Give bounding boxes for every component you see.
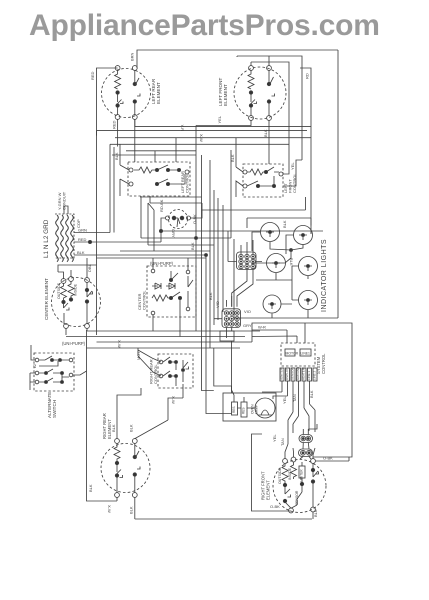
right rear element terminal 1 bbox=[115, 439, 120, 444]
wire harness h y155 bbox=[112, 154, 196, 156]
svg-text:YEL: YEL bbox=[217, 115, 222, 123]
center control dot 2 bbox=[178, 296, 181, 299]
connector block 12pin outline bbox=[237, 252, 257, 270]
right front element limiter block bbox=[299, 466, 305, 478]
wire cord top lead bbox=[64, 206, 68, 214]
right rear control switch 1 bbox=[163, 357, 176, 386]
center control box bbox=[147, 266, 196, 317]
label right front element bbox=[261, 471, 271, 500]
wire bus y135 bbox=[97, 130, 308, 132]
left rear element limit switch bbox=[118, 94, 123, 115]
wire left front elem bottom BLK bbox=[268, 120, 270, 164]
power cord conductor L1 bbox=[56, 215, 59, 262]
wire mid bus v4 bbox=[210, 160, 232, 393]
indicator lamp 6 dot bbox=[307, 299, 310, 302]
wire as left leads bbox=[30, 345, 35, 390]
wire main bus x86 BLK bbox=[87, 330, 118, 501]
svg-text:SENSOR: SENSOR bbox=[291, 366, 295, 380]
center element resistor inside bbox=[68, 281, 74, 298]
center element dot 4 bbox=[85, 300, 88, 303]
svg-text:YEL: YEL bbox=[272, 434, 277, 442]
wire mid bus v1 bbox=[195, 126, 197, 332]
left front element terminal 2 bbox=[267, 66, 272, 71]
label right rear control bbox=[149, 359, 159, 384]
indicator lamp 4 filament bbox=[304, 266, 312, 271]
indicator lamp 4 dot bbox=[307, 265, 310, 268]
wire left front elem bottom left YEL bbox=[196, 120, 251, 125]
indicator lamp 4 bbox=[299, 257, 318, 276]
SEC3 bbox=[44, 126, 306, 414]
right front element switch right bbox=[313, 463, 319, 507]
right rear element terminal 4 bbox=[132, 493, 137, 498]
svg-text:BLK: BLK bbox=[208, 292, 213, 300]
label center control bbox=[137, 290, 147, 310]
svg-text:INSIDE: INSIDE bbox=[74, 283, 78, 296]
svg-text:GRY: GRY bbox=[171, 229, 176, 238]
left front element terminal 1 bbox=[249, 66, 254, 71]
alternate switch terminal 5 bbox=[69, 373, 73, 377]
svg-text:X-W: X-W bbox=[171, 396, 176, 404]
center control dot 1 bbox=[169, 296, 172, 299]
alternate switch terminal 4 bbox=[69, 358, 73, 362]
right rear control terminal 2 bbox=[159, 374, 163, 378]
svg-text:LINE1: LINE1 bbox=[301, 352, 311, 356]
junction dot lamp bus bbox=[290, 249, 293, 252]
svg-text:GROUND: GROUND bbox=[296, 366, 300, 380]
right front element terminal 3 bbox=[311, 459, 316, 464]
left rear element terminal 1 bbox=[115, 66, 120, 71]
wire drop 155 bbox=[154, 151, 156, 162]
svg-text:BLK: BLK bbox=[77, 250, 85, 255]
svg-text:LINE 2: LINE 2 bbox=[313, 370, 317, 380]
connector oval 1 pin b bbox=[306, 436, 311, 441]
center control terminal t4 bbox=[186, 307, 190, 311]
wire lr control left leads bbox=[120, 144, 129, 196]
left front element node dot c bbox=[267, 82, 270, 85]
label left front control bbox=[283, 173, 297, 193]
oven sensor terminal L bbox=[166, 216, 170, 220]
right rear element dot 1 bbox=[115, 461, 118, 464]
svg-text:INDICATOR LIGHTS: INDICATOR LIGHTS bbox=[321, 239, 328, 312]
alternate switch terminal 1 bbox=[35, 358, 39, 362]
wire oval links bbox=[300, 424, 317, 459]
left front element terminal 4 bbox=[267, 116, 272, 121]
wire harness h y238 bbox=[141, 237, 231, 239]
left rear element switch 2 bbox=[135, 78, 140, 115]
right rear control dot 5 bbox=[182, 369, 185, 372]
svg-text:BLK: BLK bbox=[129, 506, 134, 514]
left rear element resistor bbox=[115, 70, 121, 89]
wire lamp feeds bbox=[252, 232, 299, 304]
wire sc top feeds bbox=[252, 323, 305, 343]
right front element dot 2 bbox=[300, 482, 303, 485]
SEC6 bbox=[223, 323, 352, 519]
right rear element dot 4 bbox=[133, 473, 136, 476]
left front element riser 2 bbox=[237, 56, 269, 66]
indicator lamp 1 bbox=[261, 223, 280, 242]
svg-text:BLK: BLK bbox=[88, 484, 93, 492]
indicator lamp 3 filament bbox=[272, 263, 280, 268]
svg-text:SENSOR: SENSOR bbox=[295, 490, 299, 505]
wire lf control out YEL bbox=[283, 160, 302, 186]
left rear control box bbox=[128, 162, 190, 196]
alternate switch dot 5 bbox=[45, 381, 48, 384]
oven lamp resistor block 1 bbox=[232, 402, 238, 415]
wire rr bottom right to bus bbox=[135, 497, 312, 519]
indicator lamp 6 filament bbox=[304, 300, 312, 305]
surface unit right rear element outline bbox=[101, 444, 150, 493]
left rear element node dot b bbox=[116, 104, 119, 107]
left front control box bbox=[243, 164, 283, 197]
label oven lamp bbox=[251, 404, 259, 414]
wire ce bottom leads bbox=[66, 328, 87, 335]
wire sensor bottom bbox=[161, 230, 323, 232]
left rear element terminal 2 bbox=[132, 66, 137, 71]
alternate switch dot 1 bbox=[51, 359, 54, 362]
oven sensor bead 1 bbox=[172, 216, 176, 220]
system control pin 6 bbox=[308, 368, 312, 381]
left front control switch bbox=[247, 167, 279, 186]
alternate switch terminal 2 bbox=[35, 371, 39, 375]
center element dot 2 bbox=[69, 298, 72, 301]
surface unit right front element outline bbox=[273, 460, 326, 513]
wire cord GRN out bbox=[74, 232, 110, 234]
label system control bbox=[316, 353, 326, 374]
wire vertical v148 bbox=[147, 203, 149, 245]
indicator lamp 2 dot bbox=[302, 234, 305, 237]
oven lamp filament bbox=[258, 410, 272, 415]
wire bus y150 bbox=[126, 150, 196, 152]
alternate switch terminal 3 bbox=[35, 380, 39, 384]
center element switch b bbox=[87, 282, 93, 323]
right rear control dot 4 bbox=[175, 375, 178, 378]
right front element resistor 2 bbox=[291, 462, 297, 479]
right rear element limit switch bbox=[117, 465, 123, 493]
wire vertical v141 bbox=[140, 196, 142, 238]
right rear element switch 2 bbox=[135, 451, 140, 493]
wire lamp feeds 2 bbox=[270, 218, 311, 318]
center element terminal 5 bbox=[85, 324, 90, 329]
left front control dot 3 bbox=[272, 184, 275, 187]
svg-text:YEL: YEL bbox=[282, 396, 287, 404]
system control inner relay 2 bbox=[300, 349, 311, 356]
indicator lamp 5 filament bbox=[268, 304, 276, 309]
wire rf bottom drop bbox=[312, 512, 314, 519]
right rear control dot 2 bbox=[175, 361, 178, 364]
svg-text:IGNITER: IGNITER bbox=[280, 367, 284, 380]
oven sensor terminal R bbox=[187, 216, 191, 220]
svg-text:RD-BK: RD-BK bbox=[159, 199, 164, 212]
left rear element sense lead bbox=[134, 70, 136, 82]
left rear control dot 3 bbox=[155, 182, 158, 185]
connector block 8pin outline bbox=[222, 309, 241, 328]
wire cc leads bbox=[153, 258, 188, 337]
center control terminal t2 bbox=[186, 270, 190, 274]
relay box under connector bbox=[220, 331, 234, 341]
wire main bus x110 bbox=[109, 144, 111, 232]
terminal block outline bbox=[55, 214, 74, 258]
label left rear element bbox=[151, 78, 161, 104]
connector 12pin pins bbox=[239, 254, 255, 268]
right rear control box bbox=[158, 354, 193, 388]
right front element dot 3 bbox=[311, 468, 314, 471]
wire sensor left bbox=[161, 218, 166, 242]
indicator lamp 2 bbox=[294, 226, 313, 245]
svg-text:O-BK: O-BK bbox=[323, 456, 333, 461]
svg-text:OUTSIDE: OUTSIDE bbox=[57, 282, 61, 299]
surface unit center element outline bbox=[52, 278, 101, 327]
wire harness h y197 bbox=[140, 196, 202, 198]
svg-text:(UNI-PURP): (UNI-PURP) bbox=[62, 341, 86, 346]
left front element node dot b bbox=[249, 104, 252, 107]
wire rf left L bbox=[252, 434, 292, 511]
system control pin 1 bbox=[280, 368, 284, 381]
svg-text:BLK: BLK bbox=[129, 424, 134, 432]
left front control terminal 3 bbox=[279, 172, 283, 176]
wire mid bus v5 bbox=[213, 190, 215, 325]
connector oval 1 pin a bbox=[301, 436, 306, 441]
system control pin 7 bbox=[313, 368, 317, 381]
right rear control dot 3 bbox=[169, 375, 172, 378]
center control terminal t1 bbox=[151, 269, 155, 273]
svg-text:L1 N L2 GRD: L1 N L2 GRD bbox=[43, 219, 50, 258]
right front element resistor 1 bbox=[282, 463, 288, 483]
label right rear element bbox=[102, 413, 112, 439]
wire harness h y245 bbox=[148, 244, 214, 246]
right front element switch lower bbox=[285, 487, 291, 509]
center element dot 3 bbox=[85, 288, 88, 291]
svg-text:X-W: X-W bbox=[199, 134, 204, 142]
left rear element node dot d bbox=[133, 100, 136, 103]
indicator lamp 5 dot bbox=[271, 303, 274, 306]
system control pin 5 bbox=[302, 368, 306, 381]
wire rr bottom left bbox=[116, 497, 118, 501]
indicator lamp 5 bbox=[263, 295, 281, 313]
wire 12pin stubs bbox=[228, 231, 262, 262]
svg-text:INSIDE: INSIDE bbox=[288, 467, 292, 480]
svg-text:LIMITER: LIMITER bbox=[299, 469, 303, 482]
oven sensor probe bbox=[174, 218, 180, 227]
alternate switch dot 4 bbox=[61, 372, 64, 375]
svg-text:DSPLAY: DSPLAY bbox=[285, 368, 289, 380]
svg-text:COP: COP bbox=[76, 219, 81, 228]
right rear element terminal 3 bbox=[115, 493, 120, 498]
center element dot 1 bbox=[62, 300, 65, 303]
connector oval 2 bbox=[299, 449, 313, 457]
wire top border L1 run bbox=[137, 50, 338, 68]
wire 12pin to 8pin link bbox=[232, 269, 253, 307]
center element resistor outside bbox=[61, 283, 67, 300]
svg-text:VIO: VIO bbox=[215, 301, 220, 308]
system control box bbox=[281, 343, 315, 366]
center control diode 1 bbox=[152, 283, 161, 289]
wire rrc feeds bbox=[135, 348, 183, 439]
junction dot cord red bbox=[88, 240, 91, 243]
left rear control terminal 3 bbox=[185, 170, 189, 174]
alternate switch jumper bbox=[39, 361, 58, 366]
right rear control terminal 1 bbox=[159, 360, 163, 364]
right rear control inner contact bbox=[183, 360, 189, 382]
wire harness h y331 bbox=[87, 330, 260, 332]
left rear element node dot a bbox=[116, 91, 119, 94]
right front element terminal 1 bbox=[283, 459, 288, 464]
wire main bus x96 bbox=[96, 131, 98, 335]
SEC2 bbox=[114, 138, 323, 242]
left rear control dot 4 bbox=[166, 182, 169, 185]
left rear control terminal 2 bbox=[129, 182, 133, 186]
wire right border BLK bbox=[337, 50, 339, 318]
svg-text:BLK: BLK bbox=[114, 152, 119, 160]
label left rear control bbox=[180, 171, 190, 193]
svg-text:RES: RES bbox=[241, 407, 245, 414]
system control pin 3 bbox=[291, 368, 295, 381]
left front element resistor bbox=[248, 70, 254, 89]
system control pin 2 bbox=[286, 368, 290, 381]
wire LF top feed 1 bbox=[237, 56, 302, 160]
right rear element dot 2 bbox=[115, 474, 118, 477]
SEC5 bbox=[30, 345, 312, 519]
wire vertical v154 bbox=[148, 203, 154, 251]
left front control dot 1 bbox=[264, 170, 267, 173]
svg-text:MGT: MGT bbox=[136, 351, 141, 360]
wire LF top feed 2 bbox=[251, 62, 289, 164]
svg-text:LINE 1: LINE 1 bbox=[307, 370, 311, 380]
left rear element terminal 4 bbox=[132, 115, 137, 120]
wire limiter leads bbox=[291, 462, 302, 508]
svg-text:Y-R: Y-R bbox=[180, 125, 185, 132]
wire harness h y336 bbox=[66, 336, 245, 338]
left front control terminal 1 bbox=[243, 170, 247, 174]
indicator lamp 1 dot bbox=[269, 231, 272, 234]
wire harness h y251 bbox=[120, 250, 210, 252]
wire 8pin drop bbox=[232, 341, 235, 397]
indicator lights enclosure bbox=[234, 218, 338, 318]
surface unit left front element outline bbox=[234, 67, 286, 119]
wire mid bus v2 bbox=[202, 155, 214, 391]
system control enclosure bbox=[252, 323, 352, 457]
svg-text:TAN: TAN bbox=[280, 438, 285, 446]
power cord conductor N bbox=[61, 215, 64, 262]
left rear element terminal 3 bbox=[115, 115, 120, 120]
alternate switch dot 2 bbox=[59, 359, 62, 362]
wire sensor right bbox=[150, 196, 202, 218]
wire rr risers bbox=[117, 388, 141, 439]
wire harness h y210 bbox=[202, 197, 306, 210]
oven lamp resistor block 2 bbox=[241, 402, 247, 417]
svg-text:X-W: X-W bbox=[117, 340, 122, 348]
left front control terminal 2 bbox=[243, 184, 247, 188]
connector 8pin pins bbox=[224, 311, 239, 326]
wire harness h y258 bbox=[97, 257, 207, 259]
surface unit left rear element outline bbox=[102, 69, 151, 118]
svg-text:VIO: VIO bbox=[244, 309, 251, 314]
oven sensor circle bbox=[169, 210, 188, 229]
label left front element bbox=[218, 78, 228, 106]
wire cord RED out bbox=[74, 241, 161, 243]
left front element node dot d bbox=[267, 100, 270, 103]
connector oval 1 bbox=[299, 435, 313, 443]
wire LF riser RD bbox=[300, 68, 311, 234]
wire bus v114 bbox=[113, 147, 115, 233]
svg-text:YEL: YEL bbox=[290, 162, 295, 170]
center control switch 1 bbox=[171, 271, 180, 317]
wire bus y146 bbox=[110, 143, 289, 145]
wire lamp2 drop bbox=[267, 245, 304, 264]
center element terminal 4 bbox=[64, 324, 69, 329]
oven sensor bead 2 bbox=[180, 216, 184, 220]
center element terminal 1 bbox=[61, 279, 66, 284]
indicator lamp 1 filament bbox=[266, 232, 274, 237]
svg-text:DBL: DBL bbox=[87, 263, 92, 272]
svg-text:CONTROL: CONTROL bbox=[292, 173, 297, 193]
svg-text:BLK: BLK bbox=[309, 390, 314, 398]
right front element terminal 2 bbox=[291, 457, 296, 462]
left rear control dot 2 bbox=[166, 168, 169, 171]
left front element terminal 3 bbox=[249, 116, 254, 121]
wire ce top leads bbox=[58, 258, 97, 279]
right rear control dot 1 bbox=[169, 361, 172, 364]
svg-text:GRY: GRY bbox=[243, 323, 252, 328]
right rear element sense lead bbox=[134, 443, 136, 455]
wire mid bus v7 bbox=[222, 205, 224, 312]
label alternate switch bbox=[47, 392, 57, 418]
left front control resistor bbox=[247, 169, 266, 175]
left front element node dot a bbox=[249, 91, 252, 94]
right rear element terminal 2 bbox=[132, 439, 137, 444]
svg-text:BLK: BLK bbox=[282, 220, 287, 228]
svg-text:W-R: W-R bbox=[258, 325, 266, 330]
left front element riser 1 bbox=[250, 62, 252, 66]
svg-text:HEATER: HEATER bbox=[302, 367, 306, 380]
indicator lamp 6 bbox=[299, 291, 318, 310]
svg-text:L2: L2 bbox=[33, 364, 37, 368]
left rear element L1 wire RED bbox=[97, 68, 118, 136]
right front element dot 1b bbox=[283, 499, 286, 502]
connector oval 2 pin b bbox=[307, 450, 312, 455]
svg-text:BLK: BLK bbox=[313, 509, 318, 517]
left front element limit switch bbox=[251, 94, 257, 116]
left rear control resistor bbox=[134, 167, 157, 173]
indicator lamp 3 dot bbox=[275, 262, 278, 265]
svg-text:OUTSIDE: OUTSIDE bbox=[278, 467, 282, 484]
oven lamp bbox=[255, 398, 275, 418]
wire left rear elem to bus RED bbox=[117, 119, 119, 146]
svg-text:SWITCH: SWITCH bbox=[52, 400, 57, 418]
connector oval 2 pin a dot bbox=[302, 452, 304, 454]
svg-text:CENTER ELEMENT: CENTER ELEMENT bbox=[44, 278, 49, 320]
center control resistor bbox=[152, 295, 171, 301]
center element switch a bbox=[64, 303, 70, 324]
junction dot mid2 bbox=[205, 254, 208, 257]
wire drop 134 to controls bbox=[134, 119, 136, 162]
wire stub v8 bbox=[230, 150, 232, 238]
wire drop 176 bbox=[175, 138, 177, 162]
alternate switch box bbox=[34, 353, 74, 391]
power cord conductor GRD bbox=[71, 215, 74, 262]
center control dot 3 bbox=[169, 278, 172, 281]
connector oval 1 pin a dot bbox=[302, 438, 304, 440]
left front element sense lead bbox=[268, 70, 270, 82]
right rear element dot 3 bbox=[133, 455, 136, 458]
center control switch 2 bbox=[188, 276, 193, 305]
left rear control switch 1 bbox=[157, 165, 185, 184]
center element terminal 2 bbox=[69, 277, 74, 282]
indicator lamp 3 bbox=[267, 254, 286, 273]
left front control dot 2 bbox=[256, 184, 259, 187]
wire bus y137 bbox=[115, 137, 311, 139]
right rear element resistor bbox=[114, 443, 120, 461]
wire rf terminal risers bbox=[285, 428, 315, 459]
